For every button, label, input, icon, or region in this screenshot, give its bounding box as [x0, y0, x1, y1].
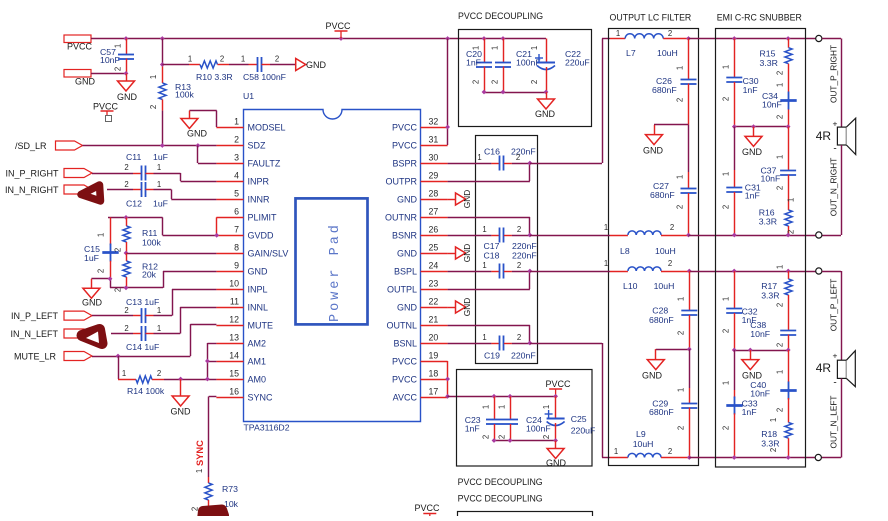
annotation marker below R73 [202, 510, 224, 520]
svg-text:2: 2 [668, 259, 672, 268]
node AM junctions [205, 359, 210, 382]
svg-text:1: 1 [721, 381, 730, 385]
svg-text:220nF: 220nF [511, 147, 536, 157]
svg-text:3.3R: 3.3R [761, 291, 779, 301]
resistor R18 3.3R [761, 418, 792, 458]
node L7 out junction [686, 36, 691, 41]
node snubber left gnd junctions [732, 348, 791, 353]
svg-text:1: 1 [122, 369, 126, 378]
svg-text:14: 14 [229, 351, 239, 361]
pin 22 GND [397, 297, 448, 313]
capacitor C37 10nF [761, 127, 797, 210]
svg-text:23: 23 [429, 279, 439, 289]
svg-text:1: 1 [195, 469, 204, 473]
power symbol PVCC bottom edge [414, 503, 440, 521]
wire to FAULTZ [198, 146, 217, 164]
wire BSPR row [448, 163, 492, 165]
svg-text:29: 29 [429, 171, 439, 181]
pin 13 AM2 [216, 333, 266, 349]
pin 19 PVCC [392, 351, 448, 367]
svg-text:1: 1 [482, 225, 486, 234]
svg-text:26: 26 [429, 225, 439, 235]
capacitor C23 1nF [465, 396, 502, 440]
svg-text:OUTPR: OUTPR [386, 177, 418, 187]
wire OUT_P_LEFT to speaker [822, 271, 842, 360]
svg-text:R73: R73 [222, 484, 238, 494]
svg-text:15: 15 [229, 369, 239, 379]
node L10 junction [687, 269, 692, 274]
pin 9 GND [216, 261, 268, 277]
capacitor C12 [107, 180, 168, 209]
svg-text:1: 1 [787, 198, 796, 202]
svg-text:27: 27 [429, 207, 439, 217]
wire C28 to gnd [656, 349, 690, 351]
EMI snubber box [716, 29, 806, 468]
wire OUTPR to L7 riser [530, 39, 610, 164]
svg-text:OUTPUT LC FILTER: OUTPUT LC FILTER [610, 13, 692, 23]
svg-text:C17: C17 [484, 241, 500, 251]
node PVCC rail junctions [124, 36, 450, 41]
speaker left 4R [816, 351, 856, 389]
svg-text:3.3R: 3.3R [761, 439, 779, 449]
inductor L9 10uH [610, 429, 689, 458]
node GVDD junctions [124, 215, 220, 238]
box 3 partial [458, 512, 593, 521]
resistor R73 10k [191, 469, 239, 511]
ground at MODSEL pin1 [181, 111, 217, 139]
capacitor C17 220nF [448, 225, 537, 251]
svg-text:1: 1 [471, 46, 480, 50]
wire OUTNR row [448, 217, 530, 219]
pin 18 PVCC [392, 369, 448, 385]
svg-text:10nF: 10nF [750, 389, 770, 399]
node snubber right gnd junctions [732, 124, 791, 129]
svg-text:SYNC: SYNC [195, 440, 205, 466]
svg-text:1: 1 [676, 388, 685, 392]
svg-text:10nF: 10nF [100, 55, 120, 65]
capacitor C25 220uF [542, 396, 595, 440]
svg-text:8: 8 [234, 243, 239, 253]
svg-text:6: 6 [234, 207, 239, 217]
svg-text:PVCC DECOUPLING: PVCC DECOUPLING [458, 477, 543, 487]
capacitor C38 10nF [750, 320, 796, 350]
svg-text:680nF: 680nF [652, 85, 677, 95]
svg-text:PVCC: PVCC [67, 42, 93, 52]
svg-text:C25: C25 [571, 414, 587, 424]
svg-text:2: 2 [497, 435, 506, 439]
svg-text:1: 1 [234, 117, 239, 127]
svg-text:1: 1 [616, 29, 620, 38]
svg-text:100nF: 100nF [526, 424, 551, 434]
svg-text:R11: R11 [142, 228, 157, 238]
svg-text:100k: 100k [142, 238, 161, 248]
capacitor C21 100nF [490, 39, 540, 93]
svg-text:2: 2 [124, 180, 128, 189]
svg-text:1: 1 [776, 155, 785, 159]
svg-text:1: 1 [776, 265, 785, 269]
svg-text:R10 3.3R: R10 3.3R [196, 72, 233, 82]
wire C11 to INPR [154, 173, 217, 182]
node R13-R10 junction [160, 62, 165, 67]
svg-text:1: 1 [776, 370, 785, 374]
svg-text:2: 2 [676, 98, 685, 102]
svg-text:1: 1 [157, 163, 161, 172]
svg-text:2: 2 [149, 105, 158, 109]
resistor R10 3.3R [162, 55, 232, 83]
svg-text:AM2: AM2 [248, 339, 267, 349]
annotation marker at IN_N_RIGHT [81, 185, 101, 201]
svg-text:L7: L7 [626, 48, 636, 58]
terminal OUT_N_LEFT [815, 454, 821, 460]
annotation marker at IN_N_LEFT [82, 330, 102, 344]
wire OUTNL row [448, 325, 530, 343]
svg-text:GND: GND [462, 298, 472, 316]
svg-text:28: 28 [429, 189, 439, 199]
pin 27 OUTNR [385, 207, 448, 223]
node decoupling1 bottom junctions [482, 90, 549, 95]
capacitor C32 1nF [721, 271, 757, 350]
svg-text:Power Pad: Power Pad [328, 222, 343, 322]
svg-text:MUTE_LR: MUTE_LR [14, 352, 57, 362]
svg-text:GND: GND [742, 371, 763, 381]
capacitor C31 1nF [722, 127, 761, 235]
svg-text:GND: GND [187, 129, 208, 139]
capacitor C57 [100, 39, 134, 74]
pin 29 OUTPR [386, 171, 448, 187]
node divider gnd junctions [108, 276, 129, 290]
wire P right rail [689, 38, 816, 40]
capacitor C13 [92, 297, 161, 323]
terminal OUT_P_RIGHT [816, 35, 822, 41]
svg-text:INNR: INNR [248, 195, 270, 205]
speaker right 4R [816, 118, 856, 154]
svg-text:3.3R: 3.3R [760, 58, 778, 68]
svg-text:2: 2 [676, 426, 685, 430]
svg-text:25: 25 [429, 243, 439, 253]
svg-text:10nF: 10nF [761, 174, 781, 184]
svg-text:PVCC: PVCC [392, 357, 418, 367]
pin 28 GND [397, 189, 448, 205]
svg-text:MODSEL: MODSEL [248, 123, 286, 133]
svg-text:1: 1 [542, 405, 551, 409]
ground below R14 [171, 379, 192, 417]
svg-text:2: 2 [769, 448, 778, 452]
svg-text:22: 22 [429, 297, 439, 307]
wire N right rail [689, 235, 816, 237]
svg-text:L10: L10 [623, 281, 638, 291]
output LC filter box [609, 29, 699, 466]
svg-text:2: 2 [516, 153, 520, 162]
ground decoupling box 2 [546, 441, 567, 469]
node C18 junction [527, 269, 532, 274]
port GND [64, 70, 96, 87]
svg-text:1: 1 [530, 46, 539, 50]
wire SDZ net [83, 145, 217, 147]
wire C13 to INPL [154, 289, 217, 316]
svg-text:2: 2 [124, 163, 128, 172]
svg-text:2: 2 [722, 97, 731, 101]
pin 15 AM0 [216, 369, 266, 385]
svg-text:13: 13 [229, 333, 239, 343]
svg-text:2: 2 [721, 426, 730, 430]
wire P left rail [689, 271, 815, 273]
svg-text:17: 17 [429, 387, 439, 397]
node C19 junction [527, 341, 532, 346]
capacitor C58 100nF [229, 55, 286, 83]
svg-text:1: 1 [497, 405, 506, 409]
svg-text:C13 1uF: C13 1uF [126, 297, 159, 307]
svg-text:OUT_N_LEFT: OUT_N_LEFT [829, 395, 839, 448]
svg-text:1nF: 1nF [742, 407, 757, 417]
wire speaker right to N [822, 145, 842, 236]
svg-text:GND: GND [742, 147, 763, 157]
svg-text:1: 1 [722, 65, 731, 69]
svg-text:/SD_LR: /SD_LR [15, 141, 47, 151]
wire AM2-AM1-AM0 tie [207, 343, 216, 379]
resistor R12 20k [114, 253, 159, 292]
svg-text:1: 1 [157, 180, 161, 189]
svg-text:2: 2 [490, 80, 499, 84]
svg-text:GND: GND [397, 249, 418, 259]
svg-text:+: + [833, 118, 838, 128]
node C16 junction [527, 161, 532, 166]
svg-text:PVCC DECOUPLING: PVCC DECOUPLING [458, 11, 543, 21]
svg-text:1: 1 [604, 259, 608, 268]
svg-text:GND: GND [397, 303, 418, 313]
svg-text:R17: R17 [761, 281, 777, 291]
port /SD_LR [15, 141, 83, 151]
wire R14 to AM0 [164, 379, 216, 381]
pin 23 OUTPL [387, 279, 448, 295]
node decoupling top junctions [482, 36, 506, 41]
svg-text:INPL: INPL [248, 285, 268, 295]
pin 25 GND [397, 243, 448, 259]
pin 3 FAULTZ [216, 153, 280, 169]
svg-text:GND: GND [397, 195, 418, 205]
svg-text:2: 2 [776, 343, 785, 347]
wire snubber left gnd row [734, 350, 788, 352]
svg-text:2: 2 [124, 306, 128, 315]
resistor R16 3.3R [759, 198, 796, 235]
inductor L10 10uH [530, 259, 689, 291]
svg-text:2: 2 [776, 303, 785, 307]
svg-text:PVCC: PVCC [93, 102, 119, 112]
node snubber N right junctions [732, 233, 791, 238]
wire divider ground node [91, 279, 163, 288]
svg-text:1: 1 [481, 405, 490, 409]
svg-text:PLIMIT: PLIMIT [248, 213, 278, 223]
svg-text:FAULTZ: FAULTZ [248, 159, 281, 169]
svg-text:IN_N_RIGHT: IN_N_RIGHT [5, 185, 59, 195]
svg-text:2: 2 [114, 288, 123, 292]
svg-text:2: 2 [542, 435, 551, 439]
pin 26 BSNR [392, 225, 448, 241]
svg-text:2: 2 [124, 324, 128, 333]
svg-text:EMI C-RC SNUBBER: EMI C-RC SNUBBER [717, 13, 802, 23]
capacitor C24 100nF [497, 396, 550, 440]
capacitor C30 1nF [722, 39, 759, 127]
svg-text:1uF: 1uF [153, 152, 168, 162]
svg-text:2: 2 [530, 80, 539, 84]
svg-text:1: 1 [157, 324, 161, 333]
svg-text:1: 1 [482, 261, 486, 270]
node C57-GND junction [124, 71, 129, 76]
svg-text:OUT_P_RIGHT: OUT_P_RIGHT [829, 45, 839, 103]
svg-text:1nF: 1nF [745, 191, 760, 201]
node R14 gnd junction [178, 377, 183, 382]
pin 7 GVDD [216, 225, 274, 241]
svg-text:2: 2 [471, 80, 480, 84]
svg-text:PVCC: PVCC [392, 123, 418, 133]
svg-text:2: 2 [113, 67, 122, 71]
svg-text:2: 2 [676, 205, 685, 209]
ground LC filter left [642, 349, 664, 380]
svg-text:31: 31 [429, 135, 439, 145]
svg-text:2: 2 [517, 225, 521, 234]
wire GND port to C57 [91, 73, 126, 75]
svg-text:12: 12 [229, 315, 239, 325]
svg-text:GND: GND [462, 244, 472, 262]
svg-text:10uH: 10uH [655, 246, 676, 256]
capacitor C22 220uF [530, 39, 590, 93]
svg-text:2: 2 [670, 223, 674, 232]
op-amp U1 TPA3116D2 body [243, 91, 421, 433]
wire OUTNR to BSNR jog [529, 217, 531, 235]
pin 2 SDZ [216, 135, 266, 151]
svg-text:GND: GND [535, 109, 556, 119]
svg-text:AM1: AM1 [248, 357, 267, 367]
svg-text:3.3R: 3.3R [759, 217, 777, 227]
port IN_P_RIGHT [5, 169, 92, 179]
wire GND pin9 drop [163, 271, 216, 288]
ground snubber right [742, 127, 763, 157]
svg-text:5: 5 [234, 189, 239, 199]
bootstrap caps box [476, 136, 538, 364]
svg-text:1: 1 [676, 297, 685, 301]
svg-text:2: 2 [668, 447, 672, 456]
ground arrow pin28 [448, 190, 472, 208]
wire SYNC net [209, 397, 217, 478]
capacitor C18 220nF [448, 251, 537, 279]
svg-text:C58 100nF: C58 100nF [243, 72, 286, 82]
pin 21 OUTNL [386, 315, 447, 331]
svg-text:GND: GND [75, 77, 96, 87]
svg-text:SDZ: SDZ [248, 141, 267, 151]
svg-text:220nF: 220nF [512, 251, 537, 261]
capacitor C40 10nF [750, 350, 796, 423]
node snubber P left junctions [732, 269, 791, 274]
pin 30 BSPR [392, 153, 447, 169]
capacitor C34 10nF [762, 83, 797, 127]
pin 32 PVCC [392, 117, 448, 133]
svg-text:GND: GND [82, 298, 103, 308]
svg-text:2: 2 [776, 408, 785, 412]
node pin32 junction [445, 125, 450, 130]
svg-text:GND: GND [171, 407, 192, 417]
svg-text:OUTNR: OUTNR [385, 213, 417, 223]
svg-text:30: 30 [429, 153, 439, 163]
svg-text:1: 1 [97, 233, 106, 237]
svg-text:AM0: AM0 [248, 375, 267, 385]
svg-text:1: 1 [676, 66, 685, 70]
svg-text:21: 21 [429, 315, 439, 325]
svg-text:GND: GND [248, 267, 269, 277]
node snubber top junctions [732, 36, 791, 41]
svg-text:10: 10 [229, 279, 239, 289]
ground LC filter right [643, 125, 664, 156]
svg-text:220nF: 220nF [512, 241, 537, 251]
wire PVCC rail top [91, 38, 546, 40]
svg-text:+: + [833, 351, 838, 361]
svg-text:1: 1 [722, 172, 731, 176]
node C28 gnd junction [687, 347, 692, 352]
svg-text:10uH: 10uH [657, 48, 678, 58]
pin 10 INPL [216, 279, 267, 295]
wire snubber right gnd row [734, 126, 788, 128]
svg-text:2: 2 [220, 55, 224, 64]
pin 16 SYNC [216, 387, 273, 403]
svg-text:20: 20 [429, 333, 439, 343]
pin 17 AVCC [393, 387, 448, 403]
pin 5 INNR [216, 189, 270, 205]
svg-text:1nF: 1nF [743, 85, 758, 95]
port IN_P_LEFT [11, 311, 92, 321]
wire GAIN/SLV net [126, 253, 216, 255]
svg-text:24: 24 [429, 261, 439, 271]
svg-text:2: 2 [234, 135, 239, 145]
svg-text:GND: GND [462, 190, 472, 208]
svg-text:2: 2 [157, 369, 161, 378]
capacitor C27 680nF [650, 125, 697, 235]
svg-text:SYNC: SYNC [248, 393, 274, 403]
svg-text:GND: GND [117, 92, 138, 102]
node C17 junction [527, 233, 532, 238]
svg-text:PVCC: PVCC [325, 21, 351, 31]
svg-text:2: 2 [722, 205, 731, 209]
wire C16 to OUTPR [448, 163, 530, 182]
wire R13 to SDZ net [162, 111, 164, 146]
svg-text:2: 2 [481, 435, 490, 439]
svg-text:GND: GND [643, 146, 664, 156]
svg-text:2: 2 [517, 333, 521, 342]
capacitor C33 1nF [721, 350, 757, 458]
svg-text:1: 1 [604, 223, 608, 232]
svg-text:2: 2 [668, 29, 672, 38]
svg-text:1: 1 [157, 306, 161, 315]
resistor R11 100k [114, 217, 162, 253]
svg-text:BSNR: BSNR [392, 231, 418, 241]
svg-text:GAIN/SLV: GAIN/SLV [248, 249, 289, 259]
svg-text:1nF: 1nF [465, 424, 480, 434]
svg-text:1: 1 [676, 175, 685, 179]
svg-text:1: 1 [477, 153, 481, 162]
inductor L8 10uH [530, 223, 689, 256]
svg-text:PVCC DECOUPLING: PVCC DECOUPLING [458, 494, 543, 504]
node pins18-17 junctions [445, 377, 450, 399]
resistor R14 100k [118, 356, 165, 396]
wire speaker left to N [821, 378, 841, 457]
svg-text:19: 19 [429, 351, 439, 361]
wire PVCC to pins 32-31 [447, 39, 449, 146]
svg-text:3: 3 [234, 153, 239, 163]
svg-text:C14 1uF: C14 1uF [126, 342, 159, 352]
svg-text:1uF: 1uF [84, 253, 99, 263]
svg-text:-: - [833, 378, 836, 389]
svg-text:2: 2 [97, 269, 106, 273]
svg-text:1: 1 [113, 44, 122, 48]
pin 4 INPR [216, 171, 269, 187]
capacitor C11 [92, 152, 168, 181]
